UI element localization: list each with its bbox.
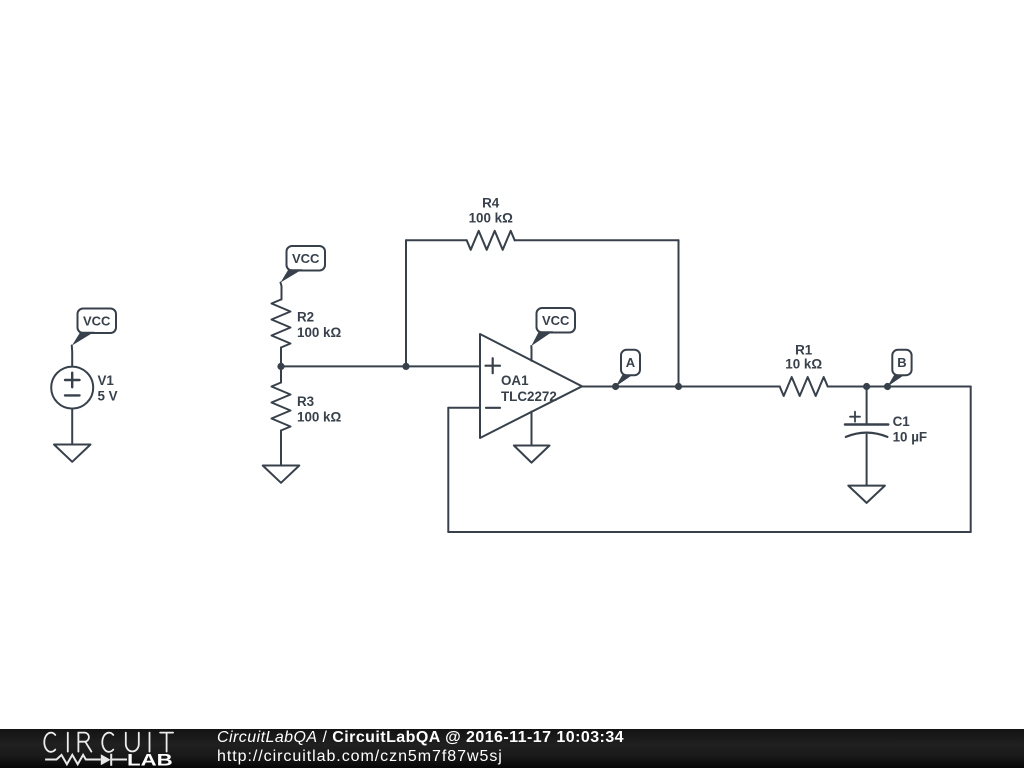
ground (V1) <box>54 445 91 462</box>
wire OA1 V- to ground <box>531 412 533 446</box>
ground (R3) <box>263 466 300 483</box>
resistor R3 <box>272 383 291 431</box>
wire VCC flag to R2 <box>281 283 282 300</box>
svg-text:R4: R4 <box>482 195 500 210</box>
svg-text:C1: C1 <box>893 414 911 429</box>
wire VCC flag to OA1 V+ <box>530 346 532 361</box>
svg-text:LAB: LAB <box>127 751 173 768</box>
node A flag <box>616 350 640 387</box>
svg-text:OA1: OA1 <box>501 373 529 388</box>
wire feedback top left <box>406 239 467 241</box>
wire output right vertical <box>970 387 972 533</box>
svg-text:10 kΩ: 10 kΩ <box>785 357 822 372</box>
footer url text <box>217 749 503 765</box>
resistor R4 <box>467 231 515 250</box>
wire feedback left vertical <box>405 240 407 366</box>
wire VCC flag to V1 <box>71 346 73 367</box>
wire inverting input horizontal <box>448 407 480 409</box>
V1 value labels <box>98 373 118 404</box>
ground (OA1) <box>514 446 550 463</box>
wire R1 to corner <box>828 386 971 388</box>
svg-text:VCC: VCC <box>542 313 570 328</box>
svg-text:R1: R1 <box>795 342 813 357</box>
CircuitLab logo <box>0 729 190 768</box>
svg-text:R3: R3 <box>297 394 314 409</box>
svg-text:TLC2272: TLC2272 <box>501 389 557 404</box>
resistor R2 <box>272 300 291 348</box>
wire bottom feedback rail <box>448 531 970 533</box>
wire OA1 output <box>582 386 780 388</box>
resistor R1 <box>780 377 828 396</box>
R3 labels <box>297 394 342 425</box>
svg-text:V1: V1 <box>98 373 115 388</box>
svg-text:B: B <box>897 355 906 370</box>
VCC flag (V1) <box>72 309 116 346</box>
wire inverting input vertical <box>447 408 449 532</box>
VCC flag (OA1) <box>531 308 575 346</box>
wire divider node to op-amp +in <box>281 365 480 367</box>
svg-text:A: A <box>626 355 636 370</box>
junction C1 tap <box>863 383 870 390</box>
wire feedback top right <box>515 239 679 241</box>
OA1 labels <box>501 373 557 404</box>
svg-text:VCC: VCC <box>292 251 320 266</box>
svg-text:10 µF: 10 µF <box>893 430 928 445</box>
footer bar <box>0 729 1024 768</box>
wire feedback right vertical <box>678 240 680 386</box>
svg-text:VCC: VCC <box>83 313 111 328</box>
junction node B <box>884 383 891 390</box>
C1 labels <box>893 414 928 445</box>
footer title text <box>217 730 624 746</box>
capacitor C1 <box>845 412 888 437</box>
wire V1 to ground <box>71 409 73 445</box>
op-amp OA1 <box>480 334 582 438</box>
wire R3 to ground <box>280 431 282 466</box>
svg-text:100 kΩ: 100 kΩ <box>297 410 342 425</box>
wire R2 to R3 <box>280 348 282 383</box>
svg-text:100 kΩ: 100 kΩ <box>469 211 514 226</box>
junction feedback tap <box>402 363 409 370</box>
svg-text:5 V: 5 V <box>98 389 118 404</box>
R4 labels <box>469 195 514 225</box>
R1 labels <box>785 342 822 371</box>
node B flag <box>888 350 912 387</box>
svg-text:R2: R2 <box>297 310 314 325</box>
junction divider node <box>277 363 284 370</box>
ground (C1) <box>848 486 885 503</box>
wire C1 to ground <box>866 435 868 486</box>
voltage source V1 <box>51 367 93 409</box>
VCC flag (R2) <box>281 246 326 283</box>
junction feedback/output <box>675 383 682 390</box>
R2 labels <box>297 310 342 341</box>
junction node A <box>612 383 619 390</box>
svg-text:100 kΩ: 100 kΩ <box>297 325 342 340</box>
wire to C1 <box>866 387 868 425</box>
